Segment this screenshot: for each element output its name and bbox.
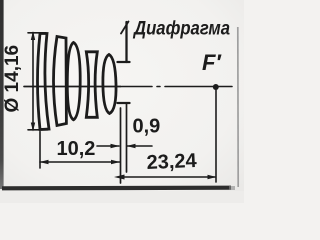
lens element L5 (rear biconvex oval) (103, 55, 116, 114)
diaphragm leader slash (121, 22, 129, 34)
svg-text:Диафрагма: Диафрагма (132, 18, 230, 40)
arrowhead diameter top (31, 31, 35, 40)
arrowhead 0,9 right (points left) (127, 144, 136, 148)
svg-text:23,24: 23,24 (146, 150, 198, 174)
dimension line 10,2 (40, 161, 120, 163)
left scan border (0, 0, 4, 189)
lens element L4 (biconcave, hourglass) (86, 52, 97, 118)
lens element L3 (doublet rear, oval) (67, 43, 80, 120)
arrowhead diameter bottom (31, 123, 35, 132)
diameter extension ticks (28, 32, 46, 34)
arrowhead 0,9 left (points right) (111, 144, 120, 148)
extension line: rear vertex (120, 108, 122, 183)
arrowhead 10,2 right (111, 160, 120, 164)
dimension line 23,24 (118, 176, 215, 178)
arrowhead 23,24 left (114, 175, 125, 180)
arrowhead 10,2 left (40, 160, 49, 164)
svg-text:0,9: 0,9 (133, 116, 161, 138)
diaphragm lower blade (118, 102, 130, 104)
bottom scan border (2, 186, 231, 191)
lens element L1 (front meniscus) (38, 34, 50, 130)
extension line: front vertex (left) (39, 132, 41, 169)
focal point dot (213, 84, 219, 90)
arrowhead 23,24 right (208, 175, 217, 179)
diaphragm upper blade (125, 22, 127, 62)
lens element L2 (doublet front) (54, 37, 67, 126)
right scan border (237, 27, 239, 187)
svg-text:Ø 14,16: Ø 14,16 (2, 45, 23, 113)
dimension 0,9 arrow lines (97, 145, 119, 147)
optical axis (dash-dot to focal plane) (122, 86, 152, 88)
extension line: focal plane F' (215, 90, 217, 182)
svg-text:10,2: 10,2 (57, 138, 96, 160)
svg-text:F′: F′ (202, 50, 222, 75)
optical axis (solid through lens) (24, 86, 121, 88)
diameter dimension line (32, 33, 34, 129)
